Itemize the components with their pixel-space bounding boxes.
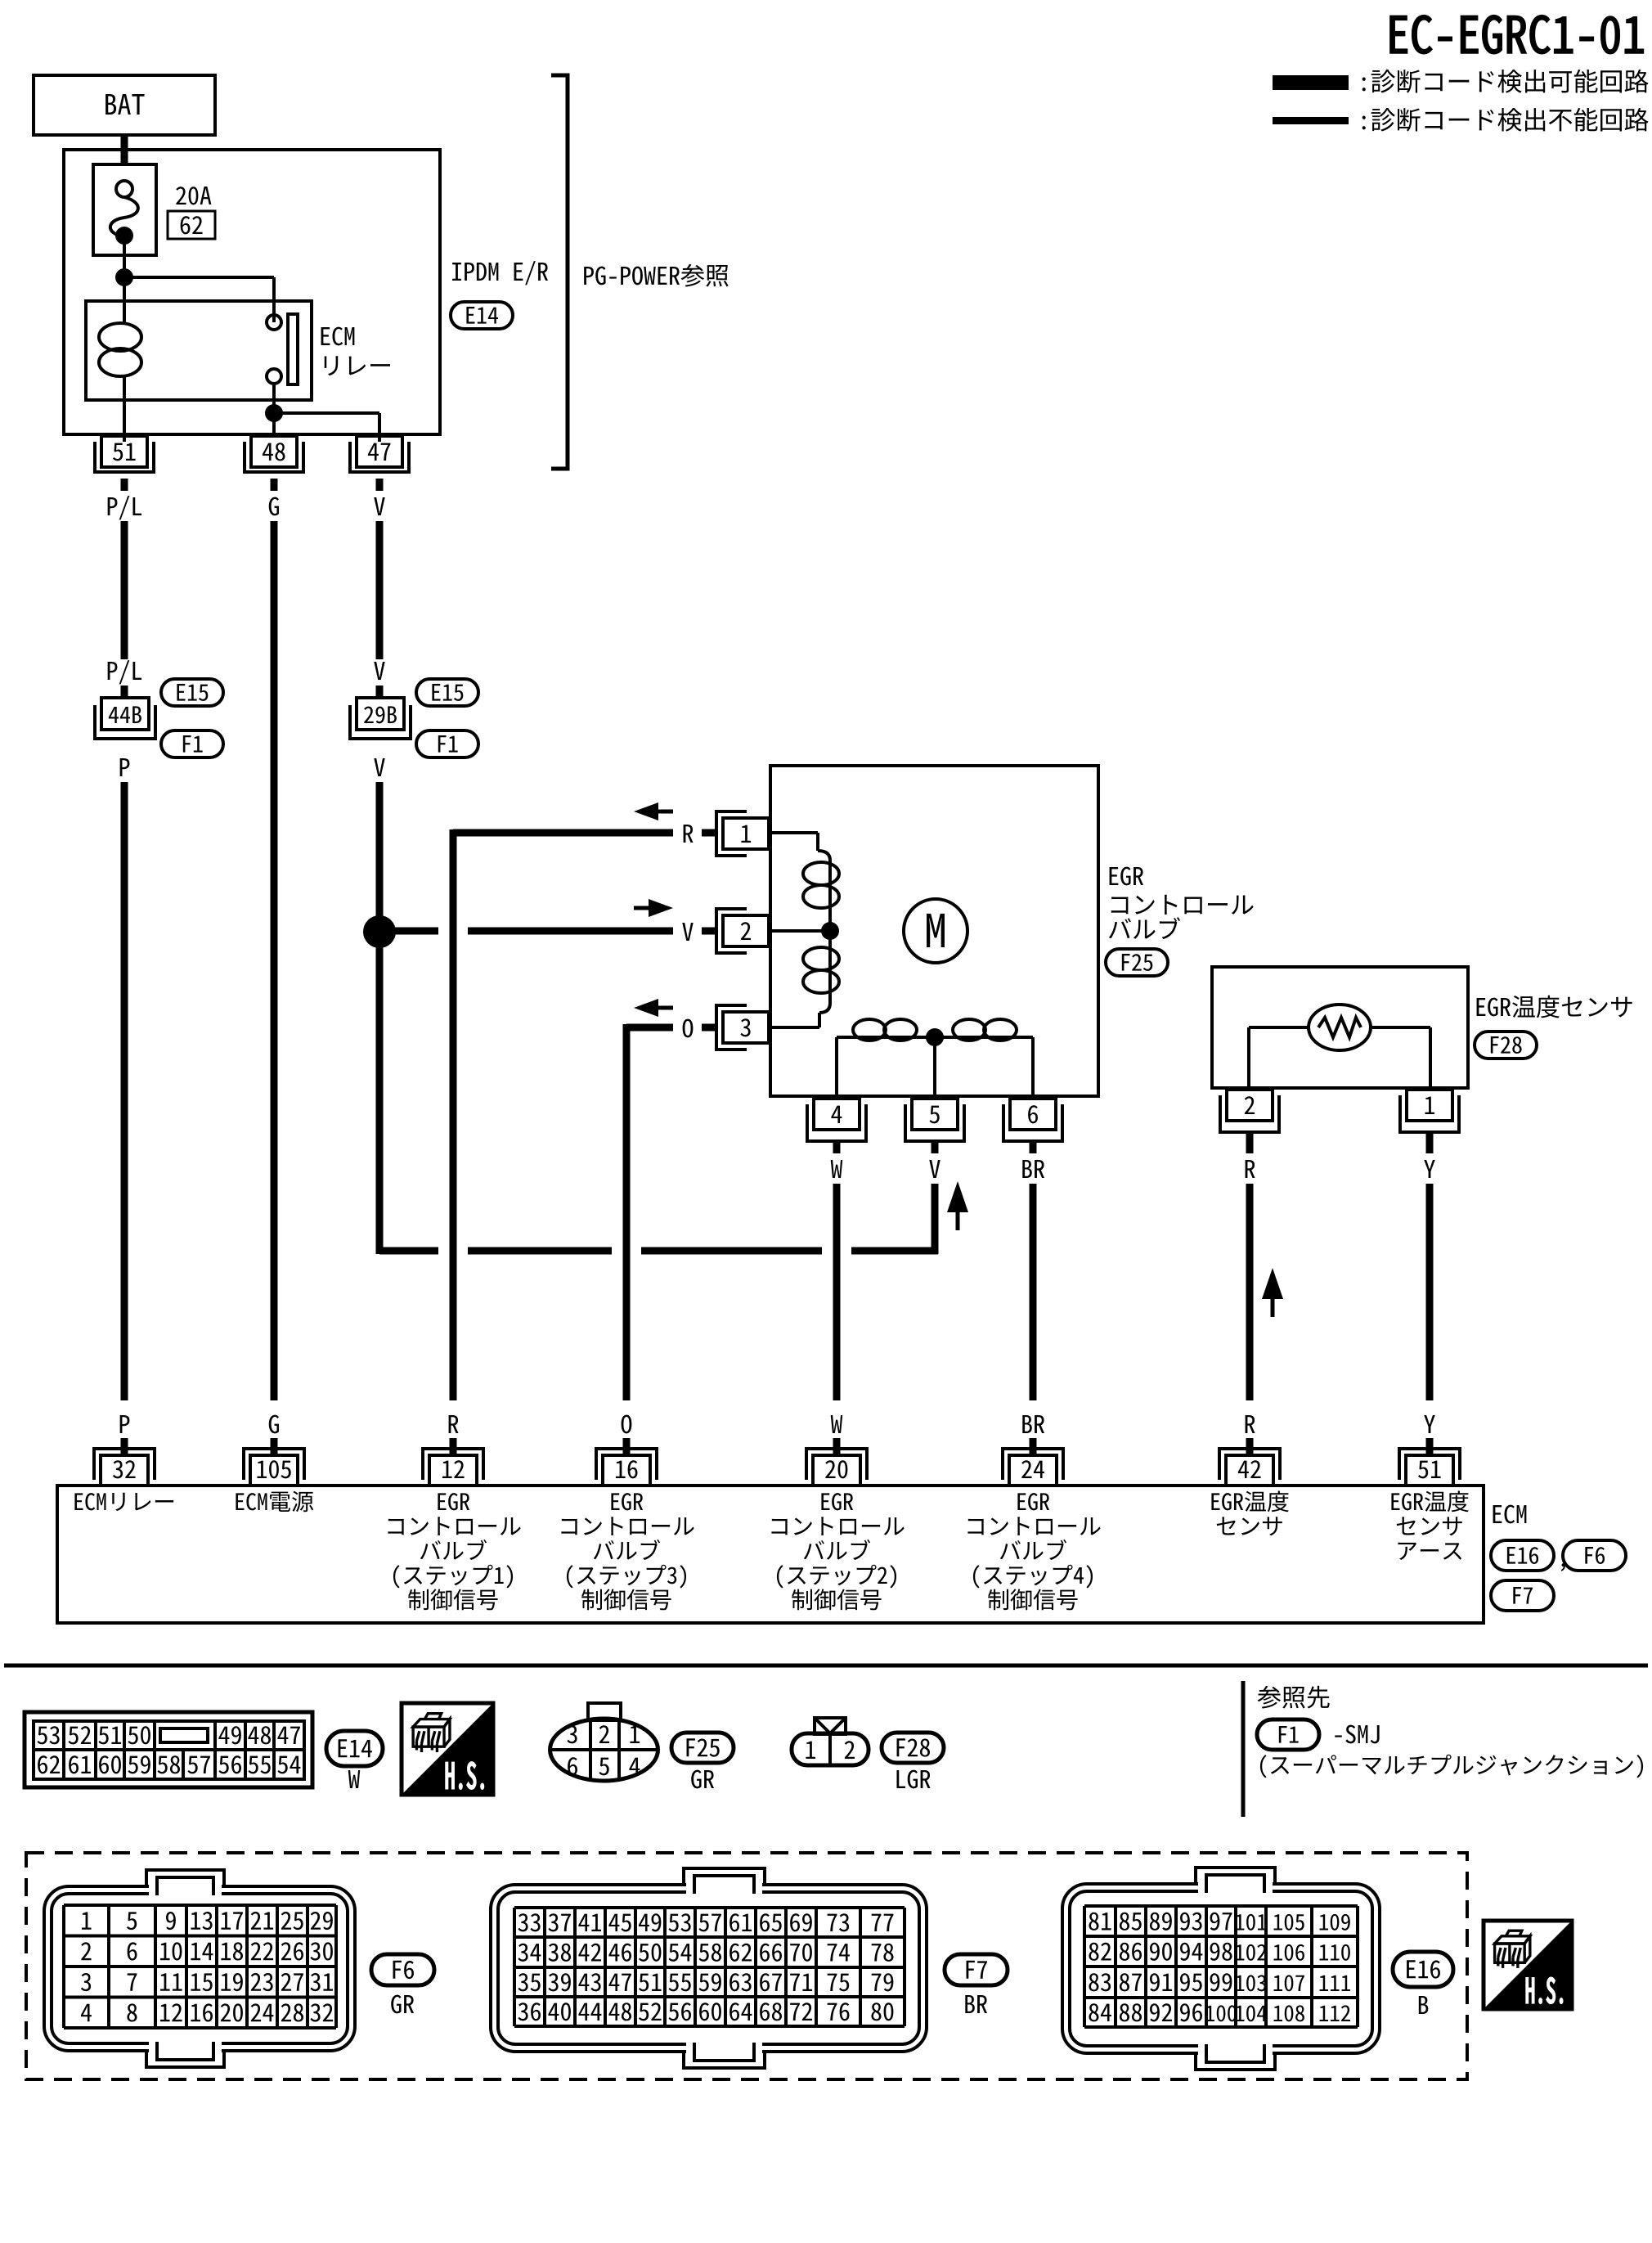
ECM pin label at x=1023: [821, 1493, 853, 1510]
arrow up on R sensor wire: [1262, 1268, 1283, 1299]
connector F1 oval (left): [161, 730, 223, 757]
wire fuse to junction: [123, 236, 126, 301]
connector E14 pin view: [25, 1712, 312, 1787]
wire V horizontal to pin 2: [393, 928, 438, 935]
F7 ref oval: [945, 1954, 1008, 1985]
junction dot on V wire: [363, 915, 396, 948]
label BR above ECM: [1022, 1415, 1044, 1433]
junction below fuse: [115, 268, 133, 286]
label G: [269, 497, 279, 516]
connector E14 oval: [451, 302, 513, 329]
stub O to pin3: [702, 1024, 717, 1032]
label W above ECM: [831, 1415, 843, 1433]
connector E16 oval ref: [1491, 1540, 1554, 1571]
F7 color BR: [965, 1995, 987, 2013]
ECM pin label at x=1263: [1017, 1493, 1049, 1510]
pin 6 EGR valve: [1010, 1099, 1056, 1130]
ECM pin 105: [250, 1455, 298, 1486]
corner O wire: [623, 1024, 631, 1027]
pin 3 EGR valve: [723, 1012, 769, 1043]
stub pin5: [931, 1141, 939, 1153]
connector F1 oval ref: [1257, 1719, 1319, 1750]
valve lower coil left: [835, 1037, 838, 1096]
stub into 44B: [121, 685, 128, 698]
legend text undetectable: [1362, 108, 1649, 132]
connector F1 oval (right): [416, 730, 478, 757]
wire BAT to IPDM: [121, 135, 128, 164]
wire pin5 internal: [933, 1037, 936, 1096]
title EC-EGRC1-01: [1390, 16, 1644, 54]
label R above ECM: [449, 1415, 459, 1433]
F28 color LGR: [896, 1770, 930, 1789]
F28 ref oval: [882, 1733, 944, 1763]
comma: [1561, 1563, 1565, 1571]
F6 color GR: [391, 1995, 414, 2014]
fuse element: [116, 181, 132, 197]
legend text detectable: [1362, 70, 1649, 93]
ECM pin 51: [1406, 1455, 1453, 1486]
label G above ECM: [269, 1415, 279, 1434]
ECM pin 12: [429, 1455, 477, 1486]
label P below 44B: [120, 758, 130, 776]
ECM pin label at x=766: [611, 1493, 643, 1510]
wire V horizontal run: [379, 1247, 438, 1255]
H.S. logo bottom: [1484, 1921, 1572, 2009]
F6 ref oval: [371, 1954, 434, 1985]
battery BAT: [34, 75, 215, 135]
junction 29B box: [357, 698, 404, 730]
pin 2 sensor: [1227, 1090, 1273, 1121]
relay coil: [123, 301, 126, 325]
valve lower coil junction: [926, 1028, 944, 1046]
ECM pin 32: [101, 1455, 148, 1486]
stub O to ECM pin: [623, 1438, 631, 1455]
ECM pin label at x=554: [438, 1493, 469, 1510]
ECM pin 16: [603, 1455, 650, 1486]
label Y above ECM: [1424, 1415, 1435, 1433]
separator line: [4, 1664, 1648, 1668]
wire O down to ECM: [623, 1027, 631, 1400]
stub Y to ECM pin: [1426, 1438, 1434, 1455]
ECM relay box: [86, 301, 312, 400]
label P above ECM: [120, 1415, 130, 1433]
wire relay coil to pin 51: [123, 400, 126, 442]
EGR temp sensor box F28: [1212, 967, 1468, 1088]
connector F6 oval ref: [1563, 1540, 1626, 1571]
ECM pin label at x=1748: [1391, 1490, 1469, 1512]
label O above ECM: [622, 1415, 632, 1434]
stub W to ECM pin: [833, 1438, 841, 1455]
label W: [831, 1160, 843, 1178]
wire R sensor down: [1246, 1184, 1254, 1400]
reference divider line: [1241, 1681, 1246, 1817]
ECM pin label at x=152: [74, 1493, 173, 1511]
connector F28 pin view: [815, 1718, 846, 1734]
stub R to pin1: [702, 829, 717, 837]
label R above ECM: [1246, 1415, 1255, 1433]
label PG-POWER reference: [584, 264, 729, 287]
wire BR down: [1030, 1184, 1037, 1400]
arrow on O wire: [634, 999, 658, 1017]
ECM pin label at x=335: [236, 1491, 313, 1512]
label BR: [1022, 1160, 1044, 1178]
ECM pin label at x=1528: [1211, 1490, 1289, 1512]
stub P to ECM pin: [121, 1438, 128, 1455]
label IPDM E/R: [452, 261, 548, 285]
label ECM: [1493, 1505, 1527, 1524]
fuse 20A 62 box: [93, 164, 156, 255]
stub pin6: [1030, 1141, 1037, 1153]
wire G full: [271, 521, 278, 1400]
valve lower coil right: [935, 1036, 1033, 1039]
label -SMJ: [1335, 1725, 1379, 1744]
arrow up beside V: [947, 1181, 968, 1212]
label V at pin 2: [682, 923, 693, 941]
label EGR temp sensor: [1477, 996, 1632, 1018]
stub R to ECM pin: [1246, 1438, 1254, 1455]
pin 47: [357, 436, 402, 467]
connector F25 pin view: [588, 1703, 621, 1720]
stub G to ECM pin: [271, 1438, 278, 1455]
wire R down to ECM: [450, 833, 457, 1400]
stub sensor pin1: [1426, 1132, 1434, 1153]
junction 44B box: [101, 698, 149, 730]
valve coil 2 (pins 2-3): [828, 939, 832, 1003]
wire junction to pin 47: [274, 411, 379, 415]
wire relay contact to junction: [272, 384, 276, 436]
junction relay output: [265, 404, 283, 422]
stub pin4: [833, 1141, 841, 1153]
wire junction to relay contact: [124, 276, 274, 279]
legend thick line: [1273, 75, 1349, 90]
E14 color W: [348, 1770, 361, 1788]
thermistor: [1309, 1005, 1371, 1050]
label super multiple junction: [1260, 1755, 1643, 1778]
label V below 29B: [374, 758, 384, 776]
valve coil mid junction: [821, 922, 839, 940]
F25 ref oval: [671, 1733, 734, 1763]
pin 1 sensor: [1407, 1090, 1452, 1121]
wire P to ECM: [121, 782, 128, 1400]
arrow on V wire: [649, 899, 673, 917]
label R at pin 1: [684, 825, 694, 843]
ECM pin 20: [813, 1455, 860, 1486]
pin 5 EGR valve: [912, 1099, 958, 1130]
corner R wire: [450, 829, 457, 833]
E16 ref oval: [1393, 1952, 1453, 1987]
label V: [374, 497, 384, 515]
sensor internal wires: [1249, 1026, 1309, 1029]
label P/L: [108, 496, 141, 519]
connector F6 pin view: [44, 1886, 355, 2051]
E16 color B: [1419, 1996, 1428, 2014]
relay contact: [267, 315, 281, 330]
stub 48: [271, 479, 278, 491]
wire V down: [376, 782, 384, 1254]
stub V to pin2: [702, 928, 717, 935]
ECM box: [57, 1486, 1484, 1623]
pin 1 EGR valve: [723, 818, 769, 849]
wire R horizontal: [453, 829, 673, 837]
stub 47: [376, 479, 384, 491]
ECM pin 42: [1226, 1455, 1273, 1486]
wire W down: [833, 1184, 841, 1400]
arrow on R wire: [634, 802, 658, 820]
connector E16 pin view: [1062, 1884, 1380, 2053]
ECM pin 24: [1009, 1455, 1057, 1486]
stub 51: [121, 479, 128, 491]
motor M: [904, 899, 967, 963]
IPDM E/R box E14: [64, 150, 440, 434]
stub into 29B: [376, 685, 384, 698]
E14 ref oval: [326, 1731, 383, 1766]
wire V pin5 down: [931, 1184, 939, 1254]
connector F7 pin view: [491, 1885, 927, 2052]
fuse rating 20A: [176, 187, 211, 205]
fuse number 62 box: [168, 211, 215, 239]
wire V segment: [376, 521, 384, 659]
pin 4 EGR valve: [814, 1099, 860, 1130]
label P/L above 44B: [108, 660, 141, 684]
label Y sensor: [1424, 1160, 1435, 1178]
label reference: [1258, 1686, 1330, 1709]
connector E15 oval (left): [161, 679, 223, 706]
connector E15 oval (right): [416, 679, 478, 706]
wire O horizontal to pin 3: [626, 1024, 673, 1032]
F25 color GR: [691, 1770, 714, 1789]
EGR control valve box F25: [770, 766, 1098, 1096]
label EGR control valve: [1110, 867, 1143, 886]
pin 51: [101, 436, 147, 467]
connector F28 oval ref: [1475, 1032, 1537, 1059]
label R sensor: [1246, 1160, 1255, 1178]
label ECM relay: [321, 327, 355, 346]
label O at pin 3: [683, 1019, 694, 1038]
pin 48: [251, 436, 297, 467]
label V above 29B: [374, 662, 384, 680]
H.S. logo top: [402, 1703, 493, 1795]
valve coil 1 (pins 1-2): [770, 831, 818, 834]
connector F7 oval ref: [1491, 1580, 1554, 1611]
legend thin line: [1273, 117, 1349, 124]
stub R to ECM pin: [450, 1438, 457, 1455]
dashed group box: [26, 1853, 1467, 2079]
bracket PG-POWER: [551, 75, 568, 469]
pin 2 EGR valve: [723, 915, 769, 946]
wire P/L segment: [121, 521, 128, 659]
label V pin5: [929, 1160, 940, 1178]
connector F25 oval ref: [1106, 949, 1168, 976]
stub BR to ECM pin: [1030, 1438, 1037, 1455]
stub sensor pin2: [1246, 1132, 1254, 1153]
wire Y sensor down: [1426, 1184, 1434, 1400]
